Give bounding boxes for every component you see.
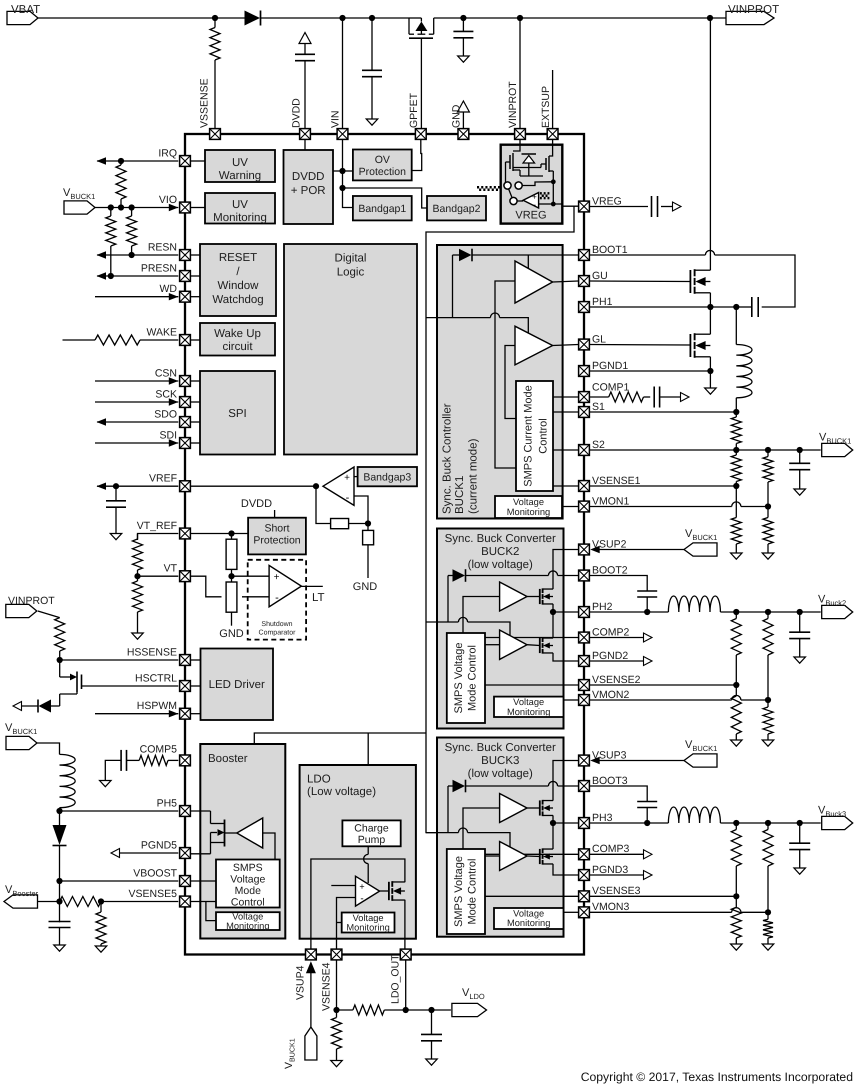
inductor boost [60, 754, 76, 811]
pin RESN [148, 242, 191, 261]
svg-text:GND: GND [451, 104, 463, 128]
svg-text:VREG: VREG [515, 210, 546, 222]
wire WD [95, 296, 178, 298]
pin VREF [149, 473, 190, 492]
svg-text:SMPS: SMPS [233, 862, 263, 874]
pin BOOT3 [579, 775, 628, 792]
op-amp VREF buffer [323, 467, 354, 505]
svg-text:BOOT1: BOOT1 [592, 244, 628, 256]
wire VREG out ext [590, 206, 648, 208]
pin PGND3 [579, 864, 629, 881]
wire VINPROT pin to VREG [513, 140, 520, 151]
wire WAKE int [191, 339, 200, 341]
wire amp minus to out node [539, 203, 554, 205]
label GND [219, 628, 244, 640]
svg-text:LDO_OUT: LDO_OUT [389, 954, 401, 1004]
block UV Monitoring [205, 193, 275, 224]
svg-text:PH1: PH1 [592, 296, 613, 308]
label DVDD [291, 98, 303, 128]
wire HSSENSE [60, 659, 179, 661]
pin VSUP2 [579, 538, 627, 555]
op-amp shutdown comparator [269, 565, 301, 607]
resistor VT int lower [226, 576, 237, 626]
svg-text:circuit: circuit [222, 341, 253, 353]
wire BOOT int BUCK2 [466, 575, 549, 577]
arrow VSUP BUCK3 [590, 757, 600, 764]
transistor Q HSCTRL PFET [60, 660, 82, 706]
junction [733, 609, 739, 615]
resistor S2-VMON1 [763, 450, 773, 507]
svg-text:Sync. Buck Controller: Sync. Buck Controller [442, 403, 454, 514]
capacitor VREF [106, 486, 126, 540]
svg-text:SPI: SPI [228, 408, 247, 420]
hop [732, 695, 741, 700]
resistor VMON low BUCK3 [763, 912, 773, 944]
hop [705, 250, 714, 255]
wire BOOT1 int [472, 254, 578, 256]
svg-text:BUCK3: BUCK3 [481, 755, 519, 767]
block Voltage Monitoring booster [216, 912, 280, 931]
wire BOOT1 ext2 [715, 255, 795, 307]
wire VSUP ext BUCK2 [599, 549, 684, 551]
block RESET / Window Watchdog [200, 244, 276, 316]
wire COMP ext BUCK3 [590, 853, 644, 855]
wire PGND ext BUCK3 [590, 874, 644, 876]
wire VSENSE ext BUCK3 [590, 895, 737, 897]
junction [733, 682, 739, 688]
IC boundary [185, 134, 584, 955]
pin PH1 [579, 296, 613, 313]
pin COMP1 [579, 382, 630, 403]
svg-text:COMP2: COMP2 [592, 626, 630, 638]
resistor WAKE series [63, 335, 179, 345]
svg-text:PH3: PH3 [592, 812, 613, 824]
wire GL int [553, 345, 579, 346]
junction [551, 202, 556, 207]
pin COMP2 [579, 626, 630, 643]
node VINPROT tag top [726, 4, 779, 25]
arrow HSPWM in [169, 710, 179, 717]
wire PGND5 int [191, 853, 211, 855]
pin LDO_OUT [400, 949, 411, 960]
wire gate1 BUCK2 [527, 596, 540, 598]
pin PGND5 [141, 840, 191, 859]
junction [765, 503, 771, 509]
junction [707, 304, 713, 310]
resistor COMP1 [590, 392, 644, 402]
wire bandgap3 to plus [354, 476, 358, 478]
wire EXTSUP to VREG [549, 140, 553, 156]
junction [517, 15, 523, 21]
resistor VMON low BUCK2 [763, 700, 773, 740]
svg-text:EXTSUP: EXTSUP [540, 86, 552, 128]
switch contact [510, 197, 517, 204]
diode D BUCK1 boot [453, 249, 473, 318]
op-amp BUCK1 upper [515, 261, 553, 303]
pin VSENSE5 [129, 888, 191, 907]
pin VSSENSE [210, 129, 221, 140]
label BUCK1 title [442, 403, 480, 514]
wire amp2 in BUCK3 [485, 855, 500, 857]
capacitor VREG ext [652, 196, 658, 217]
wire EXTSUP stub [552, 70, 554, 128]
transistor Q high side BUCK1 [690, 269, 710, 294]
ground [426, 1059, 438, 1065]
wire amp out booster [263, 833, 275, 860]
block BUCK3 [437, 738, 564, 937]
svg-text:VSSENSE: VSSENSE [199, 78, 211, 128]
capacitor VIN input cap [362, 18, 382, 119]
wire amp1 in [495, 281, 516, 468]
svg-text:SMPS Voltage: SMPS Voltage [453, 856, 465, 927]
resistor VSENSE4 low [332, 1010, 342, 1061]
wire PH5 int [191, 810, 211, 812]
wire VSENSE1 int [553, 485, 578, 487]
svg-text:DVDD: DVDD [291, 98, 303, 128]
pin VSUP4 [306, 949, 317, 960]
svg-text:VINPROT: VINPROT [728, 4, 779, 16]
pin BOOT2 [579, 564, 628, 581]
junction [797, 447, 803, 453]
ground VT arrow [132, 633, 144, 639]
arrow SCK in [169, 398, 179, 405]
pin HSPWM [137, 700, 191, 719]
wire CP down [367, 846, 369, 854]
wire VSUP4 rail [311, 859, 405, 949]
wire fet1 drain [709, 261, 711, 270]
ground [366, 119, 378, 125]
svg-text:Protection: Protection [359, 166, 406, 178]
block VREG [501, 145, 563, 224]
svg-text:Charge: Charge [354, 823, 389, 835]
junction [56, 898, 62, 904]
pin HSSENSE [127, 647, 191, 666]
junction [108, 204, 114, 210]
capacitor bootstrap BUCK3 [637, 802, 657, 808]
transistor VREG right FET [513, 156, 553, 182]
label LDO_OUT [389, 954, 401, 1004]
label GND [451, 104, 463, 128]
wire supply entry2 BUCK3 [468, 833, 510, 847]
wire VINPROT pin stub [519, 18, 521, 128]
wire VIN to Bandgap2 [343, 188, 428, 208]
pin VINPROT [515, 129, 526, 140]
wire DVDD pin to POR [304, 140, 306, 150]
wire BUCK1 supply entry [426, 317, 490, 319]
transistor BUCK3 high side [540, 800, 553, 816]
svg-text:IRQ: IRQ [158, 148, 177, 160]
wire WD int [191, 296, 200, 298]
svg-text:UV: UV [232, 199, 248, 211]
svg-text:VSENSE5: VSENSE5 [129, 888, 178, 900]
node VBuck3 tag [818, 805, 853, 830]
wire LDO_OUT ext [405, 960, 407, 1010]
comparator shutdown box [248, 560, 306, 640]
pin VBOOST [133, 868, 190, 887]
arrow COMP BUCK2 [644, 633, 653, 642]
resistor VT lower [133, 576, 143, 633]
wire VT_REF ext [138, 534, 179, 541]
svg-text:Voltage: Voltage [513, 497, 544, 507]
diode VREG body [522, 154, 537, 176]
svg-text:RESET: RESET [219, 252, 257, 264]
resistor VT int upper [226, 534, 237, 577]
svg-text:Bandgap2: Bandgap2 [433, 203, 481, 215]
wire fet2 src [709, 357, 711, 388]
junction [57, 657, 63, 663]
svg-text:PH5: PH5 [157, 798, 178, 810]
resistor PH-VSENSE BUCK2 [731, 612, 741, 685]
junction [707, 15, 713, 21]
svg-text:VREF: VREF [149, 473, 177, 485]
arrow COMP BUCK3 [644, 850, 653, 859]
wire fet2 drain [709, 307, 711, 334]
junction [733, 893, 739, 899]
wire PGND1 ext [590, 370, 711, 372]
wire COMP5 gnd [105, 760, 121, 780]
junction [765, 909, 771, 915]
block Bandgap2 [427, 196, 486, 220]
capacitor bootstrap BUCK2 [637, 591, 657, 597]
ground [705, 388, 717, 394]
pin VREG [579, 195, 622, 212]
label GND [353, 581, 378, 593]
wire RESN int [191, 254, 200, 256]
svg-text:VMON3: VMON3 [592, 901, 630, 913]
wire VMON int BUCK2 [564, 699, 579, 701]
pin S1 [579, 401, 605, 418]
wire VT int [191, 576, 222, 597]
node VBUCK1 tag boost [5, 722, 37, 750]
wire gate1 BUCK3 [527, 807, 540, 809]
wire VBOOST int [191, 880, 216, 882]
label VIN [330, 110, 342, 128]
wire PGND int BUCK3 [553, 864, 578, 875]
block BUCK1 [437, 245, 563, 519]
op-amp BUCK2 upper [500, 582, 527, 611]
svg-text:SMPS Voltage: SMPS Voltage [453, 643, 465, 714]
pin PGND1 [579, 360, 629, 377]
svg-text:COMP3: COMP3 [592, 843, 630, 855]
wire supply rail [426, 207, 574, 833]
svg-text:VSENSE4: VSENSE4 [320, 962, 332, 1011]
resistor PH-VMON BUCK2 [763, 612, 773, 700]
junction [369, 15, 375, 21]
resistor COMP5 [139, 755, 178, 765]
svg-text:(low voltage): (low voltage) [468, 559, 533, 571]
wire VBAT rail to GPFET [261, 17, 410, 19]
wire amp2 in BUCK2 [485, 644, 500, 646]
wire PH5 [60, 810, 179, 812]
resistor VSENSE4 [337, 1005, 406, 1015]
wire BOOT1 ext [590, 254, 706, 256]
wire HSPWM [95, 713, 178, 715]
resistor hatch internal [540, 192, 550, 199]
pin S2 [579, 439, 605, 456]
svg-text:Window: Window [218, 280, 260, 292]
pin VSENSE4 [331, 949, 342, 960]
junction [765, 820, 771, 826]
svg-text:VSUP4: VSUP4 [295, 965, 307, 1000]
svg-text:Short: Short [264, 523, 289, 535]
wire VIO int [191, 207, 205, 209]
junction [333, 1007, 339, 1013]
wire tag to node [38, 901, 60, 903]
hop [732, 908, 741, 913]
node VBooster tag [4, 884, 39, 908]
resistor RESN pullup [127, 208, 137, 256]
diode D boot BUCK2 [448, 569, 466, 622]
junction [797, 609, 803, 615]
pin SDI [159, 430, 190, 449]
pin IRQ [158, 148, 190, 167]
svg-text:-: - [346, 492, 350, 504]
pin GU [579, 270, 608, 287]
wire amp1 in BUCK3 [463, 808, 500, 849]
svg-text:CSN: CSN [155, 368, 177, 380]
arrow IRQ out [97, 157, 107, 164]
wire PRESN [97, 275, 178, 277]
wire CSN int [191, 380, 200, 382]
wire PH ext2 BUCK3 [720, 822, 820, 824]
hop [732, 502, 741, 507]
svg-text:Sync. Buck Converter: Sync. Buck Converter [445, 533, 556, 545]
arrow VSUP BUCK2 [590, 546, 600, 553]
svg-text:GPFET: GPFET [408, 92, 420, 128]
block SPI [200, 371, 275, 455]
capacitor out BUCK1 [789, 450, 810, 489]
wire to boost coil [37, 743, 60, 754]
block SMPS Current Mode Control [516, 381, 553, 491]
block UV Warning [205, 150, 275, 182]
resistor hatch external [477, 186, 500, 191]
wire BOOT ext BUCK3 [590, 786, 648, 801]
ground [731, 740, 743, 746]
wire GL ext [590, 344, 691, 347]
pin COMP5 [140, 743, 191, 765]
pin VT_REF [137, 520, 191, 539]
wire VSENSE5 int [191, 901, 216, 903]
pin COMP3 [579, 843, 630, 860]
svg-text:VSENSE1: VSENSE1 [592, 475, 641, 487]
svg-text:Monitoring: Monitoring [507, 918, 550, 928]
junction [118, 204, 124, 210]
arrow COMP1 [681, 393, 690, 402]
wire BOOT int BUCK3 [466, 785, 549, 787]
junction [765, 447, 771, 453]
resistor VSENSE5 [60, 897, 179, 907]
wire VSUP ext BUCK3 [599, 760, 684, 762]
junction [212, 15, 218, 21]
resistor feedback [331, 519, 349, 529]
arrow VREF out [97, 483, 107, 490]
ground [762, 944, 774, 950]
capacitor DVDD bypass [295, 33, 315, 129]
svg-text:GND: GND [219, 628, 244, 640]
junction [113, 483, 119, 489]
capacitor LDO out [421, 1010, 442, 1059]
diode D boot BUCK3 [448, 780, 466, 833]
wire VMON ext2 BUCK3 [741, 911, 768, 913]
wire BUCK1 supply entry2 [500, 318, 529, 333]
resistor VSENSE1 low [731, 486, 741, 553]
capacitor VBooster [49, 922, 71, 952]
pin PRESN [141, 263, 191, 282]
pin EXTSUP [547, 129, 558, 140]
pin PGND2 [579, 650, 629, 667]
svg-text:Control: Control [538, 418, 550, 453]
svg-text:VBAT: VBAT [11, 4, 40, 16]
capacitor out BUCK2 [789, 612, 810, 657]
pin GL [579, 333, 607, 350]
block Charge Pump [342, 820, 400, 846]
junction [550, 609, 556, 615]
wire SDI [95, 442, 178, 444]
junction [98, 898, 104, 904]
op-amp BUCK1 lower [515, 326, 553, 365]
wire cap to PH1 [736, 306, 752, 308]
junction [403, 1007, 409, 1013]
wire IRQ int [191, 160, 205, 162]
junction [765, 609, 771, 615]
wire charge pump drop [367, 733, 369, 820]
resistor PH-VSENSE BUCK3 [731, 823, 741, 896]
pin VIN [337, 129, 348, 140]
wire PGND5 [120, 852, 179, 854]
transistor LDO pass FET [389, 881, 405, 901]
hop [458, 828, 467, 833]
wire VT to comp minus [242, 596, 269, 598]
wire POR to VIN [333, 170, 343, 172]
ground [794, 489, 806, 495]
pin VMON2 [579, 689, 630, 706]
pin GND [458, 129, 469, 140]
resistor PH-VMON BUCK3 [763, 823, 773, 912]
svg-text:SDI: SDI [159, 430, 177, 442]
wire VMON ext BUCK2 [590, 699, 732, 701]
svg-text:LT: LT [312, 592, 325, 604]
svg-text:VINPROT: VINPROT [8, 595, 55, 607]
label Shutdown Comparator [259, 620, 297, 637]
svg-text:HSPWM: HSPWM [137, 700, 177, 712]
inductor L BUCK2 [668, 596, 720, 612]
ground [458, 56, 470, 62]
wire VSUP int BUCK2 [553, 550, 578, 590]
wire BOOT int2 BUCK3 [558, 785, 579, 787]
node VBUCK1 tag VSUP4 [283, 1027, 317, 1069]
svg-text:VINPROT: VINPROT [507, 81, 519, 128]
svg-text:S2: S2 [592, 439, 605, 451]
resistor S1-S2 [731, 412, 741, 450]
junction [339, 15, 345, 21]
svg-text:Mode Control: Mode Control [466, 858, 478, 924]
node VLDO tag [452, 987, 487, 1017]
svg-text:HSSENSE: HSSENSE [127, 647, 177, 659]
wire VMON ext BUCK3 [590, 911, 732, 913]
wire coil to PH5 node [59, 812, 61, 826]
pin VMON3 [579, 901, 630, 918]
svg-text:Monitoring: Monitoring [213, 212, 267, 224]
pin BOOT1 [579, 244, 628, 261]
wire HSSENSE int [191, 659, 201, 661]
svg-text:Copyright © 2017, Texas Instru: Copyright © 2017, Texas Instruments Inco… [581, 1070, 853, 1084]
wire PGND ext BUCK2 [590, 660, 644, 662]
svg-text:-: - [533, 200, 536, 210]
wire VSENSE4 ext [336, 960, 338, 1010]
svg-text:(Low voltage): (Low voltage) [307, 786, 376, 798]
ground PGND5 arrow [111, 849, 120, 858]
svg-text:VBOOST: VBOOST [133, 868, 177, 880]
